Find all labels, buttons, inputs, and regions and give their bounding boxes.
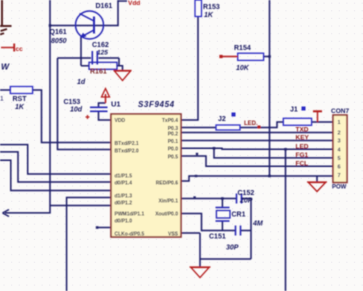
svg-text:P0.5: P0.5	[168, 155, 179, 161]
wire base lead to Q161	[50, 25, 94, 27]
svg-text:KEY: KEY	[296, 135, 310, 142]
wire VSS to ground	[199, 233, 201, 267]
wire top edge stub at D161	[118, 0, 127, 2]
svg-text:d1/P1.5: d1/P1.5	[115, 174, 133, 180]
svg-text:CR1: CR1	[232, 212, 246, 219]
wire branch down to bottom edge	[285, 149, 287, 291]
svg-text:d0/P1.0: d0/P1.0	[115, 219, 133, 225]
wire bottom return row	[200, 258, 251, 260]
resistor R154	[219, 45, 263, 72]
svg-text:7: 7	[338, 173, 341, 179]
wire J1 to connector pin1	[312, 121, 333, 123]
power bar at connector pin1	[313, 111, 322, 122]
resistor R161	[77, 62, 117, 86]
svg-text:S3F9454: S3F9454	[138, 100, 175, 109]
wire long vertical right	[269, 0, 271, 176]
svg-text:J2: J2	[218, 116, 226, 123]
svg-text:2: 2	[338, 131, 341, 137]
svg-text:20P: 20P	[239, 198, 253, 205]
svg-text:VSS: VSS	[168, 232, 179, 238]
junction vertical to pin7 row	[268, 175, 271, 178]
svg-text:TXD: TXD	[296, 127, 309, 134]
svg-text:10d: 10d	[70, 107, 83, 114]
wire C153 top to power arrow	[99, 103, 106, 107]
svg-text:CLKo-d/P0.5: CLKo-d/P0.5	[115, 232, 145, 238]
connector CON7	[331, 108, 349, 191]
wire XIN row	[181, 198, 236, 200]
svg-text:P0.0: P0.0	[168, 147, 179, 153]
junction branch down at x285	[284, 148, 287, 151]
chip U1 S3F9454	[111, 100, 181, 238]
chip pin labels	[115, 118, 145, 238]
svg-text:R161: R161	[90, 69, 107, 76]
svg-text:10K: 10K	[236, 65, 250, 72]
svg-text:J1: J1	[290, 107, 298, 114]
capacitor C162	[92, 42, 109, 65]
wire left input C to chip pin6	[0, 160, 111, 190]
junction at Q161 base	[49, 24, 52, 27]
power Vdd arrow at C153	[102, 89, 110, 104]
wire C162 to R161 row	[118, 58, 120, 66]
svg-text:1K: 1K	[204, 12, 214, 19]
svg-text:6: 6	[338, 164, 341, 170]
wire base vertical from top edge to K row	[5, 0, 50, 213]
wire Q161 collector to top	[94, 0, 118, 26]
ground at R161	[114, 71, 132, 81]
svg-text:cc: cc	[16, 46, 24, 53]
jumper J2	[216, 113, 240, 131]
svg-text:4M: 4M	[252, 221, 263, 228]
ground bottom	[190, 267, 211, 278]
power VCC left	[1, 44, 23, 54]
svg-text:8050: 8050	[51, 38, 67, 45]
svg-text:d0/P1.4: d0/P1.4	[115, 181, 133, 187]
wire chip pin4r to connector pin3	[181, 140, 333, 142]
svg-text:BTxd/P2.0: BTxd/P2.0	[115, 149, 139, 155]
wire emitter node to chip pin3	[58, 58, 112, 150]
wire crystal top	[221, 199, 223, 208]
wire chip pin2r through J2	[181, 127, 216, 129]
junction crystal top node	[221, 197, 224, 200]
node dot B	[195, 175, 197, 177]
svg-text:P0.2: P0.2	[168, 132, 179, 138]
wire chip pin1 right to R153	[181, 17, 198, 121]
svg-text:FCL: FCL	[296, 160, 309, 167]
svg-text:VDD: VDD	[115, 118, 126, 124]
wire connector pin7 ground tap	[316, 176, 318, 182]
ground top-left	[0, 0, 12, 35]
wire chip pin5r to connector pin4	[181, 148, 333, 149]
wire branch to connector pin5	[214, 148, 333, 158]
svg-text:R154: R154	[234, 45, 251, 52]
svg-text:RED/P0.6: RED/P0.6	[156, 181, 178, 187]
svg-text:30P: 30P	[226, 245, 239, 252]
svg-text:R153: R153	[203, 4, 220, 11]
svg-text:TxP0.4: TxP0.4	[162, 118, 178, 124]
wire chip pin6r to connector pin6	[181, 156, 333, 166]
svg-text:Vdd: Vdd	[128, 0, 140, 7]
svg-text:PWM1d/P1.1: PWM1d/P1.1	[115, 212, 145, 218]
svg-text:C153: C153	[64, 99, 81, 106]
svg-text:D161: D161	[96, 3, 113, 10]
wire RST left lead	[0, 89, 10, 91]
svg-text:5: 5	[338, 156, 341, 162]
svg-text:125: 125	[97, 50, 108, 57]
svg-text:POW: POW	[332, 185, 347, 191]
capacitor C153	[64, 99, 108, 119]
svg-text:d0/P1.2: d0/P1.2	[115, 201, 133, 207]
wire C151 right	[241, 230, 251, 232]
capacitor C152	[237, 190, 255, 205]
svg-text:LED.: LED.	[244, 121, 258, 127]
wire chip pin7r row to connector pin7	[181, 176, 333, 181]
svg-text:P0.1: P0.1	[168, 139, 179, 145]
wire crystal bottom	[221, 221, 223, 231]
wire chip pin9 stub	[97, 227, 111, 229]
ground at connector	[307, 182, 327, 192]
svg-text:1: 1	[338, 120, 341, 126]
wire emitter vertical	[80, 37, 82, 66]
svg-text:CON7: CON7	[331, 108, 349, 115]
resistor RST	[0, 87, 33, 112]
svg-text:C162: C162	[92, 42, 109, 49]
svg-text:FG1: FG1	[296, 152, 309, 159]
wire left input B to chip pin5	[0, 152, 111, 182]
jumper J1	[283, 107, 311, 126]
junction R154 right	[268, 55, 271, 58]
wire C162 row	[58, 57, 92, 59]
svg-text:C152: C152	[238, 190, 255, 197]
wire C153 bottom to chip VDD	[99, 111, 112, 120]
wire R154 right lead	[264, 56, 270, 58]
svg-text:Xin/P0.1: Xin/P0.1	[159, 199, 179, 205]
svg-text:U1: U1	[111, 100, 121, 109]
wire caps right vertical	[250, 199, 252, 260]
svg-text:Xout/P0.0: Xout/P0.0	[155, 212, 178, 218]
wire R161 to ground	[117, 66, 123, 71]
wire J2 to J1 step	[240, 122, 283, 128]
svg-text:LED: LED	[296, 143, 309, 150]
capacitor C151	[209, 226, 241, 252]
wire VSS stub	[181, 232, 200, 234]
svg-text:d1/P1.3: d1/P1.3	[115, 194, 133, 200]
wire RST to chip pin2	[33, 90, 111, 143]
wire left input A to chip pin4	[0, 145, 111, 174]
wire C162 right	[99, 57, 120, 59]
svg-text:1: 1	[0, 96, 4, 103]
wire R161 row left	[81, 65, 89, 67]
svg-text:1d: 1d	[77, 79, 86, 86]
wire C152 right	[242, 198, 251, 200]
node dot A	[196, 153, 198, 155]
svg-text:RST: RST	[13, 96, 28, 103]
net label LED at J2	[244, 121, 261, 129]
svg-text:Q161: Q161	[50, 29, 67, 36]
junction branch to connector pin5	[213, 147, 216, 150]
svg-text:BTxd/P2.1: BTxd/P2.1	[115, 141, 139, 147]
svg-text:3: 3	[338, 139, 341, 145]
wire XOUT row	[181, 214, 235, 231]
svg-text:W: W	[1, 62, 10, 72]
transistor Q161	[50, 11, 104, 45]
node CLKo stub end	[96, 226, 99, 229]
wire chip pin3r to connector pin2	[181, 132, 333, 134]
node dot C	[193, 196, 195, 198]
svg-text:1K: 1K	[15, 104, 25, 111]
crystal CR1	[216, 208, 263, 228]
svg-text:C151: C151	[209, 234, 226, 241]
off-sheet arrow K	[3, 210, 10, 217]
resistor R153	[195, 0, 220, 19]
wire chip pin7 down to bottom edge	[67, 198, 111, 291]
wire pin8 row to chip	[50, 205, 111, 207]
